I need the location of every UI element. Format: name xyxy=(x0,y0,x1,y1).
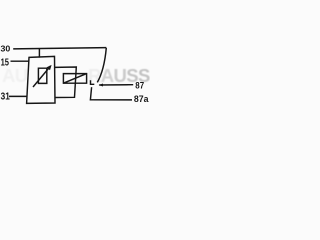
svg-text:15: 15 xyxy=(1,57,10,68)
svg-text:31: 31 xyxy=(1,91,11,102)
svg-text:30: 30 xyxy=(1,43,11,53)
svg-text:87: 87 xyxy=(135,80,144,90)
svg-text:87a: 87a xyxy=(134,93,149,104)
